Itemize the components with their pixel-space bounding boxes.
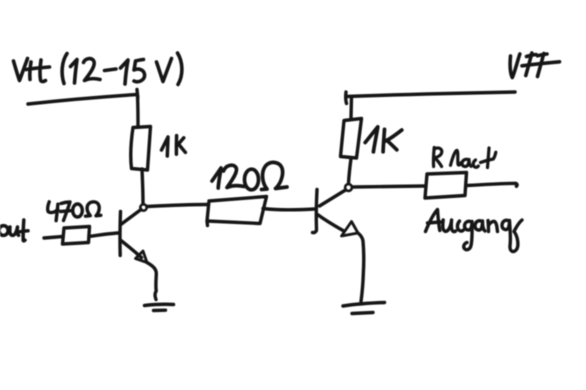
label Vtt right	[510, 53, 559, 78]
label Vtt (12-15V)	[14, 53, 182, 85]
label Ausgang	[426, 210, 523, 252]
label Rlast (R5)	[433, 148, 495, 168]
resistor R1 1K	[131, 127, 151, 171]
wire Q2 emitter to ground	[358, 233, 364, 302]
wire R4 to node B	[349, 159, 352, 184]
transistor Q2 base bar	[313, 190, 318, 233]
transistor Q2 collector stroke	[320, 190, 346, 206]
ground GND1	[145, 304, 174, 305]
wire node B to R5	[353, 186, 426, 187]
resistor R5 Rlast	[425, 173, 467, 199]
label 1K (R1)	[162, 136, 186, 156]
wire rail to R4	[349, 97, 353, 118]
transistor Q1 collector stroke	[122, 210, 142, 225]
wire node A to R3	[147, 205, 207, 207]
wire rail left tick	[344, 92, 348, 104]
resistor R3 120 ohm	[207, 197, 267, 226]
wire R3 to base Q2	[263, 209, 315, 210]
label 470 ohm (R2)	[48, 202, 101, 221]
resistor R2 470 ohm	[63, 227, 90, 245]
transistor Q2 emitter arrow	[342, 222, 359, 237]
transistor Q1 emitter stroke	[121, 241, 142, 258]
wire out to R2	[44, 237, 63, 239]
transistor Q2 emitter stroke	[318, 215, 344, 231]
wire rail to R1	[136, 94, 140, 127]
wire R5 to output	[467, 183, 518, 186]
wire Q1 emitter to ground	[147, 263, 156, 300]
label 120 ohm (R3)	[212, 162, 287, 189]
transistor Q1 base bar	[118, 212, 122, 256]
node A (collector Q1)	[140, 204, 146, 210]
wire right Vtt rail	[346, 92, 515, 97]
wire R2 to base Q1	[89, 233, 119, 237]
wire rail overshoot tick	[135, 90, 139, 99]
transistor Q1 emitter arrow	[136, 251, 148, 263]
wire left Vtt rail	[28, 95, 137, 105]
label out	[0, 220, 28, 241]
ground GND2	[343, 303, 385, 307]
wire R1 to node A	[142, 169, 143, 204]
resistor R4 1K	[341, 119, 362, 159]
label 1K (R4)	[365, 127, 402, 152]
node B (collector Q2)	[345, 184, 352, 191]
